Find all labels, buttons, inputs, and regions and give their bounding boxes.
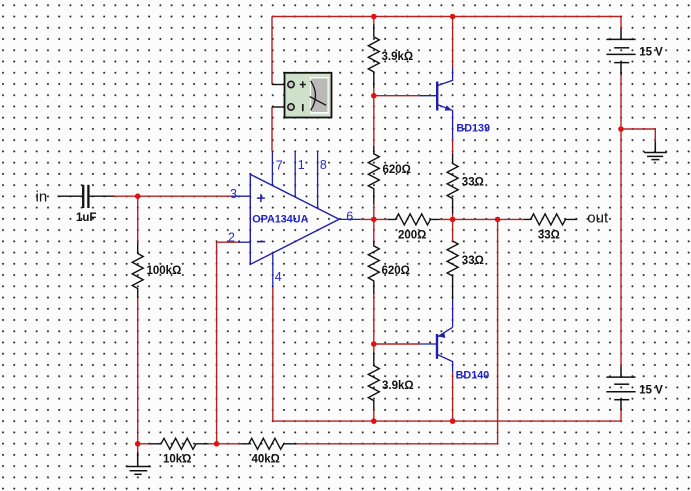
label R11 value 3.9k	[382, 51, 414, 63]
label R1 value 100k	[147, 265, 182, 277]
wire Q2 collector to bottom rail	[452, 373, 454, 421]
wire top rail stub to R11	[373, 17, 375, 25]
svg-text:BD140: BD140	[456, 370, 490, 382]
ground GND2 right	[644, 142, 667, 160]
junction bottom rail at R7	[371, 418, 377, 424]
pin number 4	[275, 270, 282, 284]
svg-text:33Ω: 33Ω	[462, 176, 484, 188]
svg-text:100kΩ: 100kΩ	[147, 265, 182, 277]
label C1 value 1uF	[76, 212, 96, 224]
label R6 value 620	[382, 265, 410, 277]
battery V1 top right	[606, 29, 635, 76]
wire from top rail down to multimeter plus terminal	[271, 17, 273, 85]
resistor R9 33 bottom vertical	[447, 241, 458, 299]
wire top rail corner down to battery V1	[620, 17, 622, 29]
junction node A	[371, 93, 377, 99]
label R9 value 33	[462, 255, 484, 267]
wire output node down to R9	[452, 219, 454, 241]
wire output node down to R6	[373, 219, 375, 241]
wire mid node down to battery V2	[620, 129, 622, 366]
junction output node at R5	[371, 217, 377, 223]
multimeter XMM1 minus terminal	[288, 104, 294, 110]
wire R4 to output node region	[440, 218, 525, 220]
svg-text:1uF: 1uF	[76, 212, 96, 224]
op-amp pin 3 lead	[232, 195, 250, 197]
wire ground node to R2	[138, 443, 150, 445]
resistor R6 620 bottom vertical	[368, 241, 379, 294]
resistor R7 3.9k bottom vertical	[368, 353, 379, 410]
label R8 value 33	[462, 176, 484, 188]
wire input node to op-amp pin 3	[114, 195, 232, 197]
label Q1 part BD139	[456, 122, 490, 134]
wire top supply rail	[272, 16, 621, 18]
svg-text:620Ω: 620Ω	[382, 265, 410, 277]
svg-text:2: 2	[228, 231, 235, 245]
pin number 6	[346, 209, 353, 223]
wire R1 bottom to ground node	[137, 297, 139, 453]
pin number 2	[228, 231, 235, 245]
resistor R4 200 ohm horizontal	[388, 214, 440, 225]
multimeter XMM1 plus marking	[300, 81, 306, 88]
wire node B to Q2 base	[374, 343, 420, 345]
wire R5 to output node	[373, 204, 375, 219]
svg-text:1: 1	[298, 158, 305, 172]
resistor R2 10k horizontal	[150, 438, 209, 449]
svg-text:33Ω: 33Ω	[538, 230, 560, 242]
resistor R10 33 output horizontal	[524, 214, 577, 225]
label Q2 part BD140	[456, 370, 490, 382]
op-amp pin 2 lead	[238, 241, 250, 243]
node out label	[587, 210, 609, 227]
svg-text:40kΩ: 40kΩ	[252, 453, 280, 465]
label R3 value 40k	[252, 453, 280, 465]
multimeter XMM1 screen curve	[310, 81, 326, 111]
transistor Q1 emitter with arrow	[437, 105, 452, 140]
multimeter XMM1 body	[285, 73, 332, 118]
svg-text:BD139: BD139	[456, 122, 490, 134]
op-amp pin 1 lead	[294, 152, 296, 197]
op-amp pin 7 lead	[271, 151, 273, 186]
ground GND1 bottom left	[126, 452, 151, 474]
junction top rail at R11	[371, 14, 377, 20]
resistor R5 620 top vertical	[368, 146, 379, 204]
label R4 value 200	[398, 230, 426, 242]
wire R8 to output node	[452, 214, 454, 220]
svg-text:3.9kΩ: 3.9kΩ	[382, 51, 414, 63]
wire node B down to R7	[373, 344, 375, 353]
transistor Q2 BD140 base bar	[436, 334, 438, 359]
pin number 7	[276, 158, 283, 172]
junction node B	[371, 341, 377, 347]
transistor Q2 collector	[437, 354, 453, 372]
wire top rail to Q1 collector	[452, 17, 454, 68]
label R10 value 33	[538, 230, 560, 242]
svg-text:4: 4	[275, 270, 282, 284]
svg-text:620Ω: 620Ω	[383, 164, 411, 176]
transistor Q1 base lead	[420, 95, 437, 97]
junction input node	[135, 193, 141, 199]
resistor R1 100k vertical	[132, 242, 143, 297]
pin number 1	[298, 158, 305, 172]
resistor R8 33 top vertical	[447, 154, 458, 214]
transistor Q2 base lead	[420, 343, 437, 345]
junction bottom rail at Q2 collector	[450, 418, 456, 424]
pin number 8	[320, 158, 327, 172]
junction output node at feedback riser	[495, 217, 501, 223]
svg-text:8: 8	[320, 158, 327, 172]
pin number 3	[230, 187, 237, 201]
wire R7 to bottom rail	[373, 410, 375, 422]
wire middle chain below 3.9k top	[373, 88, 375, 96]
wire from multimeter minus terminal down to op-amp pin 7	[271, 107, 273, 151]
svg-text:15 V: 15 V	[639, 46, 663, 58]
wire input node down to R1	[137, 196, 139, 242]
svg-text:OPA134UA: OPA134UA	[252, 213, 308, 225]
battery V2 bottom right	[606, 366, 635, 410]
label R7 value 3.9k	[382, 380, 414, 392]
op-amp U1 plus input marking	[257, 194, 265, 202]
junction output node at R8	[450, 217, 456, 223]
junction ground node bottom left	[135, 441, 141, 447]
svg-text:in: in	[36, 189, 48, 206]
wire op-amp output to R4	[361, 218, 388, 220]
multimeter XMM1 plus terminal	[288, 81, 294, 87]
wire node A to Q1 base	[374, 95, 420, 97]
op-amp pin 4 lead	[272, 253, 274, 288]
svg-text:out: out	[587, 210, 609, 227]
resistor R3 40k horizontal	[241, 438, 297, 449]
transistor Q2 emitter with arrow	[437, 299, 453, 338]
svg-text:10kΩ: 10kΩ	[163, 453, 191, 465]
svg-text:3: 3	[230, 187, 237, 201]
svg-text:3.9kΩ: 3.9kΩ	[382, 380, 414, 392]
multimeter XMM1 stub to plus terminal	[272, 84, 288, 86]
op-amp pin 6 output lead	[339, 218, 361, 220]
wire Q1 emitter to R8	[452, 140, 454, 154]
node in : input lead wire	[58, 195, 83, 197]
resistor R11 3.9k top vertical	[368, 24, 379, 88]
label R2 value 10k	[163, 453, 191, 465]
capacitor C1 1uF	[83, 185, 114, 208]
wire R2 to feedback node and up to op-amp pin 2	[209, 242, 239, 444]
wire battery V2 bottom to bottom rail corner	[620, 410, 622, 421]
wire bottom supply rail	[273, 420, 621, 422]
svg-text:7: 7	[276, 158, 283, 172]
wire R6 to node B	[373, 294, 375, 344]
label V1 value 15 V	[639, 46, 663, 58]
wire R3 to output riser corner	[297, 219, 498, 443]
multimeter XMM1 minus marking	[302, 104, 304, 111]
op-amp U1 minus input marking	[257, 241, 265, 243]
transistor Q1 BD139 base bar	[436, 82, 438, 111]
multimeter XMM1 stub to minus terminal	[272, 106, 288, 108]
transistor Q1 collector	[437, 67, 452, 86]
op-amp pin 8 lead	[317, 152, 319, 208]
svg-text:6: 6	[346, 209, 353, 223]
wire middle chain node A down to R5	[373, 96, 375, 146]
node in label	[36, 189, 48, 206]
junction battery mid node	[618, 126, 624, 132]
junction top rail at Q1 collector	[450, 14, 456, 20]
svg-text:33Ω: 33Ω	[462, 255, 484, 267]
junction feedback node	[214, 441, 220, 447]
svg-text:200Ω: 200Ω	[398, 230, 426, 242]
wire mid node to right ground	[621, 129, 655, 142]
label U1 part OPA134UA	[252, 213, 308, 225]
wire op-amp pin 4 down to bottom rail	[272, 288, 274, 422]
wire feedback node to R3	[217, 443, 241, 445]
multimeter XMM1 screen	[310, 77, 329, 114]
wire battery V1 to mid node	[620, 76, 622, 129]
svg-text:15 V: 15 V	[639, 384, 663, 396]
op-amp U1 triangle	[250, 174, 339, 264]
label R5 value 620	[383, 164, 411, 176]
label V2 value 15 V	[639, 384, 663, 396]
